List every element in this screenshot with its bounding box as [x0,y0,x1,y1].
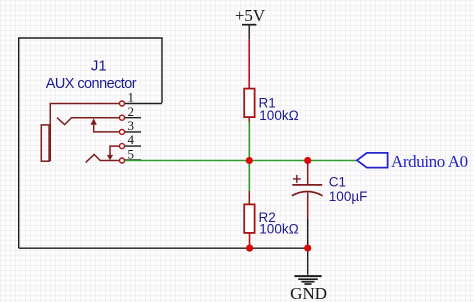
svg-text:GND: GND [290,284,327,302]
svg-text:100kΩ: 100kΩ [259,222,298,237]
svg-text:+5V: +5V [235,6,266,25]
svg-text:100µF: 100µF [329,189,368,204]
svg-text:Arduino A0: Arduino A0 [391,152,468,171]
svg-text:100kΩ: 100kΩ [259,108,298,123]
svg-text:C1: C1 [329,175,346,190]
svg-text:AUX connector: AUX connector [46,76,137,92]
svg-text:5: 5 [128,147,135,162]
svg-text:2: 2 [128,104,135,119]
svg-text:J1: J1 [91,58,107,75]
svg-text:3: 3 [128,118,135,133]
svg-text:4: 4 [128,132,135,147]
